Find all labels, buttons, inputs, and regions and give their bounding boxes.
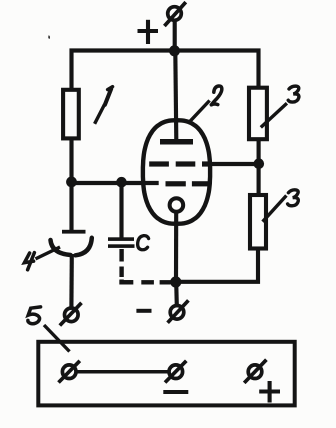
battery box 5 xyxy=(38,342,294,406)
node grid-left junction xyxy=(66,177,77,188)
tube grid 2 (dashed) xyxy=(166,181,212,186)
wire divider link xyxy=(257,140,261,194)
tube V1 envelope xyxy=(143,120,210,224)
label 3 lower xyxy=(288,190,299,206)
wire microphone lead xyxy=(69,254,74,307)
capacitor C lead xyxy=(119,183,123,239)
label 5 leader xyxy=(44,325,70,352)
node capacitor tap xyxy=(116,177,127,188)
label 3 upper xyxy=(288,86,299,102)
plus sign top xyxy=(138,20,159,44)
wire cathode lead xyxy=(174,212,178,282)
resistor R1 xyxy=(63,90,79,139)
label 2 leader xyxy=(190,101,210,122)
tube anode plate xyxy=(160,139,193,145)
wire bottom rail xyxy=(176,250,258,282)
resistor R3 upper xyxy=(249,88,267,140)
microphone M membrane arcs xyxy=(51,238,92,256)
battery minus mark xyxy=(163,390,188,394)
resistor R3 lower xyxy=(250,195,266,249)
wire battery link xyxy=(76,370,169,374)
label 4 leader xyxy=(36,247,61,259)
label 2 xyxy=(211,86,222,105)
battery terminal left xyxy=(59,361,80,383)
label 3 lower leader xyxy=(263,196,287,222)
label 3 upper leader xyxy=(261,103,287,127)
label 1 xyxy=(105,87,113,105)
wire grid-left xyxy=(72,181,159,185)
battery terminal middle (−) xyxy=(165,361,186,383)
node divider junction xyxy=(253,158,264,169)
tube grid 1 (dashed) xyxy=(149,161,212,166)
terminal top (+ supply) xyxy=(164,2,185,26)
label 4 xyxy=(24,253,34,270)
wire dashed (capacitor return) xyxy=(119,249,170,282)
capacitor C plates xyxy=(108,237,135,248)
node bottom junction xyxy=(170,276,181,287)
battery plus mark xyxy=(259,381,280,403)
label 5 xyxy=(28,307,41,324)
node top junction xyxy=(169,45,180,56)
wire to minus terminal xyxy=(174,282,179,306)
wire grid1 to divider xyxy=(208,162,259,166)
wire left vertical xyxy=(69,139,73,230)
battery terminal right (+) xyxy=(244,360,266,383)
minus sign xyxy=(136,309,151,313)
microphone M top electrode xyxy=(62,230,86,234)
label 1 leader xyxy=(95,105,105,124)
terminal bottom left xyxy=(60,303,82,326)
tube cathode xyxy=(170,198,184,212)
label C xyxy=(138,236,149,250)
terminal bottom middle (−) xyxy=(168,300,189,322)
wire anode lead xyxy=(173,21,177,52)
wire top rail xyxy=(72,51,259,90)
